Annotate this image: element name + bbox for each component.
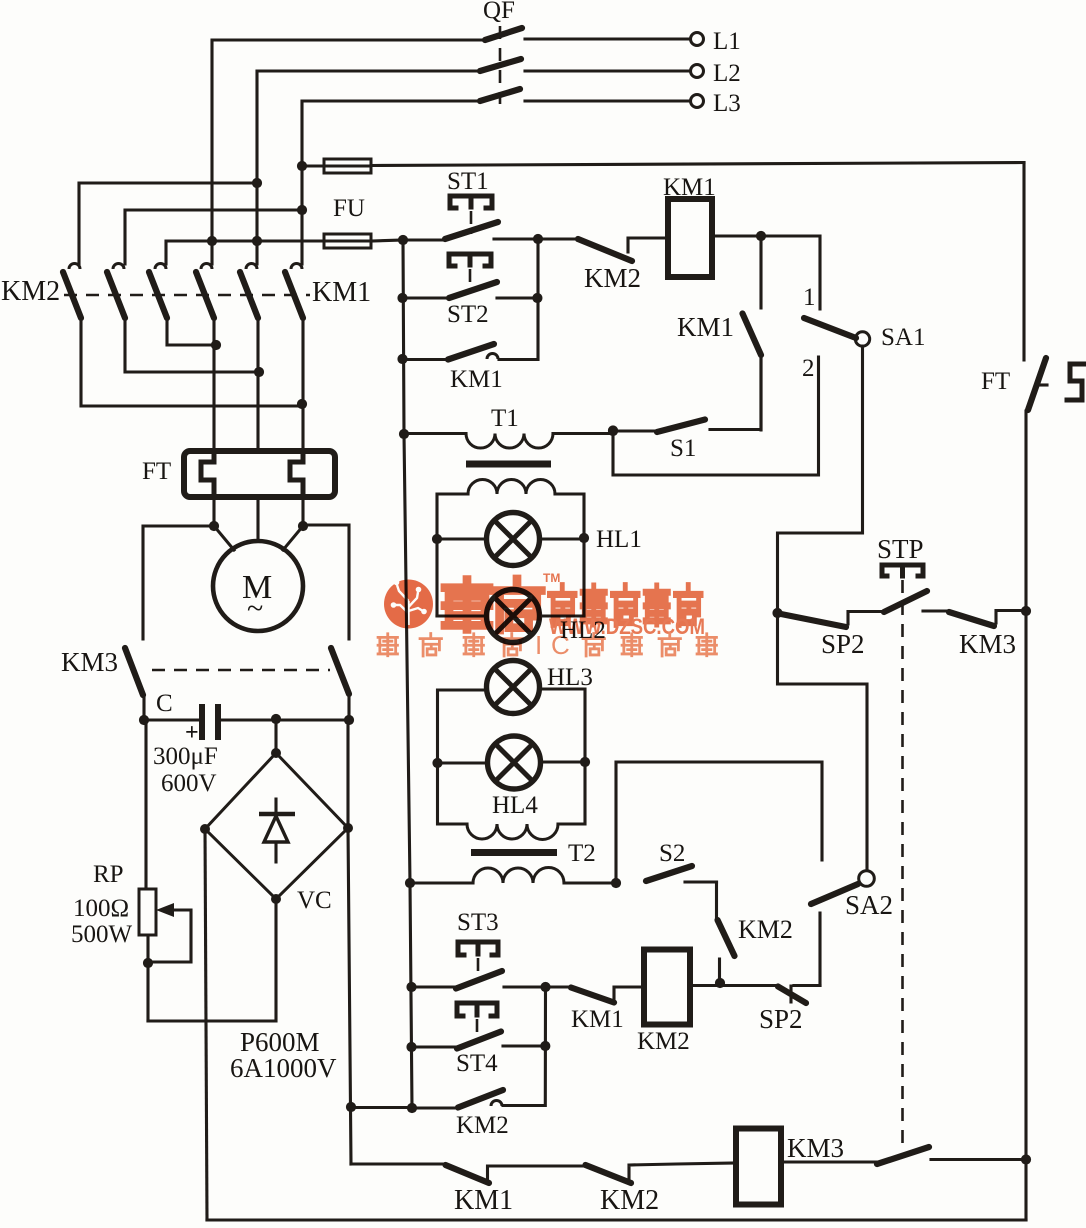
contact SP2 lower	[720, 986, 820, 1004]
node right bus top	[533, 234, 543, 244]
node right rail KM3	[1021, 606, 1031, 616]
contact ST4	[412, 1032, 546, 1049]
selector SA1 pivot	[855, 332, 869, 346]
pushbutton ST4 head	[457, 1003, 497, 1016]
node motor lead left	[209, 521, 219, 531]
node bus ST4	[406, 1042, 416, 1052]
pushbutton ST2 head	[449, 254, 491, 266]
svg-text:100Ω: 100Ω	[73, 895, 129, 922]
wire bottom rail	[207, 1218, 1026, 1221]
svg-text:HL3: HL3	[547, 664, 593, 691]
svg-text:STP: STP	[877, 534, 924, 564]
wire SA1 to SP2 branch	[778, 346, 868, 870]
lamp HL4	[438, 736, 586, 789]
node T1 right	[608, 425, 618, 435]
svg-text:KM3: KM3	[61, 647, 118, 677]
node HL4 right	[580, 757, 590, 767]
node bus at pole5	[252, 236, 262, 246]
contact ST2	[403, 282, 538, 298]
wire brake tap left	[143, 526, 214, 639]
contact KM1 bottom	[446, 1165, 586, 1183]
svg-text:KM2: KM2	[584, 263, 641, 293]
watermark big chars	[445, 579, 541, 630]
coil KM2	[644, 950, 690, 1025]
node RP bottom	[143, 958, 153, 968]
thermal relay FT box	[184, 451, 335, 497]
node KM2 coil out	[715, 978, 725, 988]
node L3-fuse1	[297, 161, 307, 171]
resistor RP	[139, 720, 156, 1021]
KM2 pole2	[107, 264, 259, 373]
svg-text:C: C	[156, 690, 173, 717]
svg-text:KM2: KM2	[1, 276, 60, 307]
node ST right bus ST4	[540, 1041, 550, 1051]
watermark medium chars	[549, 586, 701, 625]
node vertex top	[271, 748, 281, 758]
svg-text:FU: FU	[333, 195, 365, 222]
svg-text:HL1: HL1	[596, 526, 642, 553]
STP linkage dashes	[901, 580, 904, 1150]
node SP2 upper left	[772, 608, 782, 618]
node L3 cross	[297, 205, 307, 215]
contact STP	[884, 591, 949, 612]
node DC branch	[346, 1102, 356, 1112]
wire KM2 aux to DC branch	[351, 1106, 412, 1109]
wire DC to KM1 bottom	[351, 1162, 446, 1165]
contact S2	[646, 866, 717, 882]
svg-text:L1: L1	[713, 28, 741, 55]
svg-text:WWW.DZSC.COM: WWW.DZSC.COM	[549, 614, 705, 639]
coil KM3	[736, 1129, 781, 1205]
KM1 pole2	[240, 264, 258, 452]
transformer T2 primary	[410, 867, 616, 883]
RP wiper arrow	[148, 903, 191, 962]
node ST right bus top	[540, 982, 550, 992]
svg-text:600V: 600V	[161, 770, 217, 797]
lamp HL3	[438, 661, 586, 764]
wire VC left arm down	[205, 829, 207, 1220]
terminal L1	[691, 33, 704, 46]
transformer T1 secondary	[437, 480, 584, 617]
svg-text:T1: T1	[491, 405, 519, 432]
svg-text:T2: T2	[568, 840, 596, 867]
wire capacitor line	[144, 718, 349, 721]
svg-text:KM1: KM1	[677, 312, 734, 342]
svg-text:2: 2	[802, 355, 815, 382]
svg-text:S1: S1	[670, 435, 696, 462]
T1 core	[466, 461, 551, 468]
contact ST1	[403, 222, 538, 240]
wire phase L1 bus to fuse2	[166, 241, 324, 264]
wire VC bottom to RP	[148, 899, 276, 1021]
node S1 left	[608, 426, 618, 436]
svg-text:I: I	[535, 630, 542, 660]
node vertex right	[343, 823, 353, 833]
node right rail bottom	[1021, 1154, 1031, 1164]
pushbutton ST1 head	[450, 196, 492, 208]
svg-text:RP: RP	[93, 861, 124, 888]
svg-text:SA1: SA1	[881, 324, 925, 351]
wire SA1 pos2	[613, 357, 819, 475]
contact KM1 vertical NO	[743, 236, 762, 430]
watermark logo disc	[384, 580, 433, 629]
svg-text:ST2: ST2	[447, 301, 489, 328]
node right bus ST2	[532, 293, 542, 303]
contact KM2 vertical NC	[717, 882, 735, 983]
node T2 right	[611, 878, 621, 888]
node KM2pole2 out	[254, 367, 264, 377]
wire L3 feed	[302, 101, 689, 264]
node L2 cross	[252, 178, 262, 188]
svg-text:VC: VC	[297, 887, 332, 914]
selector SA2 blade	[811, 884, 858, 904]
svg-text:~: ~	[247, 592, 263, 625]
lamp HL2	[437, 590, 584, 643]
KM2 pole1	[63, 264, 302, 407]
lamp HL1	[437, 513, 584, 566]
breaker QF pole 2	[480, 59, 521, 71]
breaker QF pole 3	[480, 89, 520, 101]
svg-text:SP2: SP2	[821, 629, 865, 659]
terminal L2	[691, 65, 704, 78]
svg-text:SP2: SP2	[759, 1004, 803, 1034]
wire top control rail	[302, 163, 1024, 167]
coil KM1	[668, 199, 712, 277]
KM1 pole1	[196, 264, 214, 452]
node bridge right feed	[344, 715, 354, 725]
wire fuse2 to control line	[371, 240, 403, 241]
contact KM2 bottom	[586, 1163, 737, 1183]
contactor KM3 right pole	[331, 648, 349, 720]
node bus ST2	[397, 293, 407, 303]
node HL1 left	[432, 534, 442, 544]
svg-text:FT: FT	[981, 368, 1010, 395]
wire bridge top	[274, 719, 277, 753]
selector SA2 pivot	[859, 871, 875, 887]
node bus T1	[399, 429, 409, 439]
fuse FU2	[324, 234, 371, 248]
svg-text:TM: TM	[543, 571, 560, 585]
contact SP2 upper	[781, 612, 884, 628]
contact ST3	[412, 971, 546, 989]
selector SA1 blade	[804, 318, 856, 338]
wire KM2 coil right	[690, 984, 720, 987]
diode symbol inside VC	[259, 799, 295, 862]
linkage dashes KM3	[152, 669, 330, 672]
svg-text:L2: L2	[713, 60, 741, 87]
ST2 link dashes	[469, 269, 472, 292]
node bridge top feed	[271, 714, 281, 724]
node T2 left	[405, 878, 415, 888]
FT trip heater symbol	[1038, 364, 1086, 400]
svg-text:KM1: KM1	[454, 1185, 513, 1216]
contact KM3 upper	[949, 611, 1026, 627]
transformer T1 primary	[404, 434, 613, 449]
wire VC right arm	[348, 720, 351, 1164]
contact KM2 interlock	[538, 238, 668, 261]
ST1 link dashes	[470, 211, 473, 234]
linkage dashes main contacts	[64, 294, 310, 297]
node vertex left	[200, 824, 210, 834]
fuse FU1	[324, 159, 371, 173]
motor M	[213, 541, 303, 631]
node cap left	[139, 715, 149, 725]
svg-text:KM3: KM3	[787, 1133, 844, 1163]
svg-text:KM3: KM3	[959, 629, 1016, 659]
wire right bus of start group	[536, 239, 539, 360]
watermark slogan row	[378, 630, 716, 660]
svg-text:300μF: 300μF	[153, 743, 218, 770]
svg-text:KM1: KM1	[571, 1006, 624, 1033]
pushbutton ST3 head	[458, 942, 498, 955]
contact S1	[613, 355, 761, 432]
wire control left bus	[403, 240, 412, 1108]
wire motor leads	[214, 497, 303, 550]
wire phase cross L2 to KM2 pole1	[79, 183, 257, 264]
node L1 to bus	[207, 236, 217, 246]
KM2 pole3	[149, 264, 216, 346]
contact FT linked	[781, 1147, 1026, 1164]
svg-text:KM2: KM2	[456, 1112, 509, 1139]
svg-text:FT: FT	[142, 458, 171, 485]
contact FT trip	[1028, 358, 1046, 410]
wire phase cross L3 to KM2 pole2	[125, 210, 302, 264]
node bus KM1aux	[397, 354, 407, 364]
svg-text:ST3: ST3	[457, 909, 499, 936]
wire brake tap right	[303, 525, 349, 639]
svg-text:KM2: KM2	[738, 915, 793, 944]
svg-text:C: C	[551, 630, 570, 660]
wire right rail top	[1022, 163, 1025, 361]
svg-text:L3: L3	[713, 90, 741, 117]
node bus top	[398, 235, 408, 245]
node motor lead right	[298, 521, 308, 531]
rectifier VC diamond	[205, 753, 348, 899]
terminal L3	[691, 95, 704, 108]
svg-text:HL4: HL4	[492, 792, 538, 819]
svg-text:QF: QF	[483, 0, 515, 24]
svg-text:ST1: ST1	[447, 168, 489, 195]
FT heater phase A	[201, 453, 214, 495]
pushbutton STP head	[882, 565, 923, 576]
svg-text:KM1: KM1	[663, 174, 716, 201]
ST4 link dashes	[476, 1019, 479, 1042]
wire SA2 pos2	[794, 913, 820, 986]
capacitor C plates	[202, 704, 218, 740]
contact KM1 NC left of coil	[546, 987, 645, 1003]
node HL4 left	[432, 758, 442, 768]
transformer T2 secondary	[438, 762, 586, 840]
svg-text:1: 1	[803, 284, 816, 311]
svg-text:KM1: KM1	[312, 277, 371, 308]
contact KM2 aux hook	[412, 1090, 503, 1108]
wire L1 feed	[212, 39, 689, 264]
CIRCUIT	[79, 0, 1024, 264]
FT heater phase C	[290, 453, 303, 495]
svg-text:S2: S2	[659, 840, 685, 867]
node HL1 right	[579, 533, 589, 543]
T2 core	[471, 849, 557, 856]
node KM2pole1 out	[297, 399, 307, 409]
svg-text:500W: 500W	[71, 921, 133, 948]
wire right rail lower	[1024, 411, 1027, 1220]
svg-text:KM2: KM2	[600, 1185, 659, 1216]
wire coil KM1 out	[712, 236, 820, 309]
node bus bottom	[407, 1103, 417, 1113]
svg-text:KM2: KM2	[637, 1028, 690, 1055]
contactor KM3 left pole	[125, 648, 144, 720]
node bus ST3	[406, 982, 416, 992]
ST3 link dashes	[477, 958, 480, 981]
svg-text:SA2: SA2	[845, 890, 893, 920]
node KM1 coil out	[756, 231, 766, 241]
node KM2pole3 out	[211, 340, 221, 350]
breaker QF linkage	[499, 26, 502, 104]
wire T2 to SA2 pos1	[616, 762, 822, 883]
wire L2 feed	[257, 71, 689, 264]
svg-text:KM1: KM1	[450, 366, 503, 393]
KM1 pole3	[285, 264, 303, 452]
wire ST group right bus	[503, 987, 546, 1106]
contact KM1 aux hook	[403, 344, 538, 360]
svg-text:6A1000V: 6A1000V	[230, 1053, 337, 1083]
svg-text:ST4: ST4	[456, 1050, 498, 1077]
breaker QF pole 1	[485, 28, 522, 40]
node vertex bottom	[271, 894, 281, 904]
